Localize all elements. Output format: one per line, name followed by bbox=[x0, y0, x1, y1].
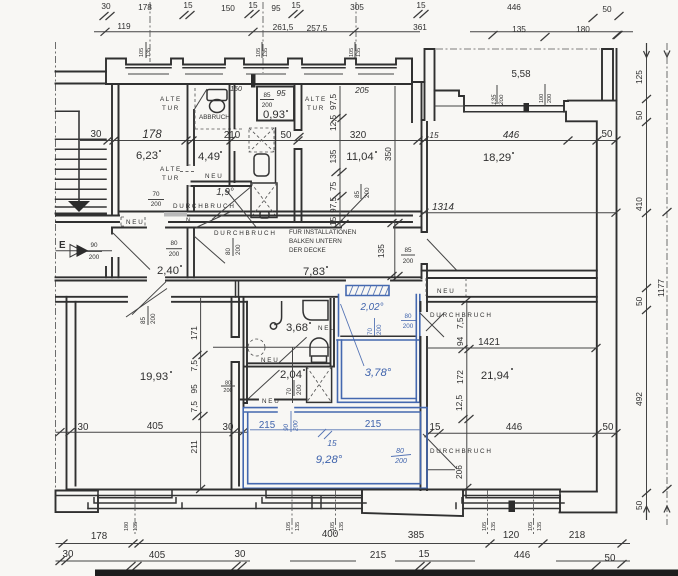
top wall window sill lines bbox=[128, 73, 394, 75]
svg-text:50: 50 bbox=[634, 296, 644, 306]
svg-text:492: 492 bbox=[634, 392, 644, 406]
svg-text:E: E bbox=[59, 240, 66, 251]
svg-text:N E U: N E U bbox=[261, 357, 278, 364]
wall A between stair hall and room 6,23 bbox=[112, 84, 119, 216]
svg-text:105: 105 bbox=[349, 48, 355, 57]
svg-text:2,40: 2,40 bbox=[157, 265, 179, 277]
svg-text:350: 350 bbox=[383, 147, 393, 161]
shaft S1 dashed bbox=[249, 128, 274, 152]
svg-text:305: 305 bbox=[350, 2, 364, 12]
room 2,40 walls bbox=[106, 228, 194, 278]
rotated 80/200 labels (7,83 door) bbox=[225, 238, 242, 256]
window axis small labels 105/135 right bbox=[349, 42, 362, 58]
vertical dim chain x=340 (97,5 12,5 135 75 97,5 15) bbox=[339, 86, 341, 226]
labels in 0,93: 85/200 fraction and 95 bbox=[260, 92, 274, 109]
right dim chain 2 (overall 1177) bbox=[666, 43, 668, 525]
breakthrough X below 4,49 bbox=[196, 212, 230, 228]
wall between 2,02 and 3,78 bbox=[341, 335, 416, 337]
NEU opening dashed in 18,29 bottom wall bbox=[426, 278, 466, 296]
svg-text:85: 85 bbox=[354, 190, 361, 198]
window bay 3 bbox=[456, 490, 564, 509]
door swing 3,68 bbox=[278, 337, 306, 363]
top dimension row A: 15 bbox=[180, 0, 195, 19]
svg-text:9,28°: 9,28° bbox=[316, 454, 343, 466]
stair hall top wall bbox=[56, 72, 107, 84]
corridor band upper wall lines bbox=[56, 216, 412, 223]
svg-text:15: 15 bbox=[429, 130, 439, 140]
svg-text:261,5: 261,5 bbox=[273, 22, 294, 32]
rotated 70/200 blue bbox=[367, 318, 383, 336]
svg-text:15: 15 bbox=[291, 0, 301, 10]
svg-text:D U R C H B R U C H: D U R C H B R U C H bbox=[430, 448, 491, 455]
svg-text:385: 385 bbox=[408, 530, 425, 541]
notch box inside shaft bbox=[260, 212, 269, 219]
svg-text:257,5: 257,5 bbox=[307, 23, 328, 33]
svg-text:135: 135 bbox=[328, 149, 338, 163]
bottom wall window line bbox=[56, 495, 560, 497]
door swing below 2,40 bbox=[132, 282, 166, 315]
shaft with X next to 2,04 bbox=[307, 367, 332, 403]
corridor strip verticals bbox=[236, 281, 239, 298]
svg-text:171: 171 bbox=[189, 326, 199, 340]
rotated 70/200 labels in 2,04 bbox=[286, 380, 303, 396]
svg-text:18,29: 18,29 bbox=[483, 152, 511, 164]
svg-text:200: 200 bbox=[235, 244, 242, 255]
svg-text:410: 410 bbox=[634, 197, 644, 211]
wall between room 11,04 and courtyard jamb bbox=[412, 59, 425, 85]
bottom exterior wall inner face bbox=[67, 489, 561, 491]
row B tick marks bbox=[101, 28, 110, 36]
85/200 fraction on duct bbox=[401, 247, 415, 265]
room 19,93 left wall bbox=[67, 297, 76, 490]
svg-text:135: 135 bbox=[491, 522, 497, 531]
svg-text:120: 120 bbox=[503, 530, 520, 541]
svg-text:135: 135 bbox=[537, 522, 543, 531]
bottom dim row C line bbox=[56, 543, 631, 545]
door swing 7,83 corridor bbox=[194, 236, 225, 263]
svg-text:N E U: N E U bbox=[205, 173, 222, 180]
svg-text:210: 210 bbox=[224, 130, 241, 141]
svg-text:50: 50 bbox=[605, 553, 616, 564]
courtyard bottom wall left stub bbox=[435, 91, 465, 112]
svg-text:15: 15 bbox=[248, 0, 258, 10]
fraction 85/200 rotated (11,04 door) bbox=[354, 184, 371, 199]
svg-text:2oo: 2oo bbox=[498, 94, 505, 106]
svg-text:320: 320 bbox=[350, 130, 367, 141]
svg-text:215: 215 bbox=[365, 419, 382, 430]
svg-text:100: 100 bbox=[539, 94, 545, 103]
blue room 3,78 walls bbox=[338, 295, 420, 403]
label 135 rotated corridor duct bbox=[376, 244, 386, 258]
svg-text:7,5: 7,5 bbox=[189, 360, 199, 372]
svg-text:4,49: 4,49 bbox=[198, 151, 220, 163]
room 4,49 bottom wall bbox=[192, 182, 252, 187]
NEU opening (gray shade) bbox=[164, 212, 187, 217]
svg-text:125: 125 bbox=[634, 70, 644, 84]
vertical dim 350 bbox=[394, 86, 396, 215]
svg-text:105: 105 bbox=[256, 48, 262, 57]
NEU label corridor left bbox=[121, 217, 145, 226]
toilet in 3,68 bbox=[310, 338, 328, 356]
door swing 2,04 bbox=[248, 370, 280, 399]
tick on 21,94 top wall bbox=[462, 297, 471, 305]
svg-text:90: 90 bbox=[283, 423, 290, 431]
bathtub bbox=[303, 301, 328, 321]
door swing wall B top (into 4,49) bbox=[194, 89, 207, 110]
svg-text:15: 15 bbox=[416, 0, 426, 10]
svg-text:5,58: 5,58 bbox=[511, 69, 531, 80]
svg-text:DER DECKE: DER DECKE bbox=[289, 247, 326, 254]
svg-text:200: 200 bbox=[223, 388, 232, 394]
svg-text:90: 90 bbox=[90, 242, 98, 249]
top dimension row A: 15 bbox=[245, 0, 260, 18]
top dimension row A: 30 bbox=[100, 1, 115, 20]
top exterior wall outer profile with window pillars bbox=[106, 59, 412, 85]
sink line and bowl bbox=[275, 302, 282, 325]
chain1 arrowheads bbox=[644, 43, 650, 520]
fraction 80/200 (19,93 right door) bbox=[221, 381, 235, 395]
dashed circle (future fixture) bbox=[248, 339, 265, 356]
svg-text:200: 200 bbox=[89, 254, 100, 261]
staircase flight divider bbox=[78, 111, 80, 207]
svg-text:150: 150 bbox=[221, 3, 235, 13]
top-right pier block bbox=[602, 49, 613, 101]
svg-text:135: 135 bbox=[133, 522, 139, 531]
svg-text:85: 85 bbox=[404, 247, 412, 254]
dashed window axes top bbox=[150, 2, 356, 73]
courtyard bottom wall right stub / corner of 18,29 bbox=[564, 101, 617, 492]
svg-text:30: 30 bbox=[101, 1, 111, 11]
svg-text:80: 80 bbox=[404, 313, 412, 320]
bottom dim row D line bbox=[56, 560, 631, 562]
svg-text:94: 94 bbox=[455, 336, 465, 346]
svg-text:7,83: 7,83 bbox=[303, 266, 325, 278]
svg-text:N E U: N E U bbox=[126, 219, 143, 226]
breakthrough diagonal and lines bbox=[423, 434, 457, 470]
thick wall chunk below 9,28 bbox=[362, 490, 463, 517]
sink bbox=[254, 154, 269, 176]
top dimension row A: 15 bbox=[414, 0, 429, 18]
svg-text:135: 135 bbox=[295, 522, 301, 531]
svg-text:105: 105 bbox=[482, 522, 488, 531]
svg-text:11,04: 11,04 bbox=[346, 151, 373, 163]
staircase landing line bbox=[56, 110, 80, 112]
window bay 2 (double) bbox=[256, 490, 366, 509]
svg-text:A L T E: A L T E bbox=[305, 96, 325, 103]
svg-text:15: 15 bbox=[419, 549, 430, 560]
svg-text:400: 400 bbox=[322, 529, 339, 540]
dim line 1421 bbox=[427, 347, 597, 349]
svg-text:D U R C H B R U C H: D U R C H B R U C H bbox=[214, 230, 275, 237]
rotated labels 105/135 bay2 bbox=[286, 522, 345, 531]
row D: 50 bbox=[592, 553, 627, 570]
dashed window axes bottom bbox=[135, 490, 534, 534]
room 18,29 bottom wall bbox=[422, 271, 597, 278]
rotated 85/200 (19,93 door) bbox=[140, 306, 157, 325]
shaft S2 with X bbox=[251, 183, 277, 218]
rotated labels 105/135 bay3 bbox=[482, 522, 543, 531]
dim line for corridor duct bbox=[394, 220, 396, 280]
svg-text:172: 172 bbox=[455, 370, 465, 384]
rotated window labels 180/135 bay1 bbox=[124, 522, 139, 531]
fraction 80/200 blue (2,02) bbox=[401, 313, 416, 330]
door swing room 2,40 left bbox=[113, 233, 150, 270]
staircase treads bbox=[56, 139, 107, 207]
fraction 90/200 entrance bbox=[86, 242, 102, 261]
window axis small labels 105/135 left bbox=[139, 42, 152, 58]
top wall inner face bbox=[106, 83, 412, 85]
19,93 entry door swing bbox=[126, 289, 167, 318]
bay 3 black mullion bbox=[509, 501, 516, 513]
blue door swing 2,02 bbox=[341, 304, 365, 366]
svg-text:1,9°: 1,9° bbox=[216, 187, 234, 198]
svg-text:2,02°: 2,02° bbox=[360, 302, 384, 313]
svg-text:97,5: 97,5 bbox=[328, 93, 338, 110]
svg-text:BALKEN UNTERN: BALKEN UNTERN bbox=[289, 238, 342, 245]
svg-text:200: 200 bbox=[296, 384, 303, 395]
svg-text:50: 50 bbox=[602, 129, 613, 140]
door swing into 18,29 bbox=[427, 239, 457, 271]
chimney black bar bbox=[251, 75, 256, 88]
svg-text:3,68: 3,68 bbox=[286, 322, 308, 334]
svg-text:1314: 1314 bbox=[432, 202, 454, 213]
svg-text:200: 200 bbox=[403, 258, 414, 265]
old door dashes in wall B bbox=[180, 165, 196, 186]
svg-text:95: 95 bbox=[276, 88, 286, 98]
breakthrough X in wall (2,02 to 21,94) bbox=[420, 313, 444, 337]
toilet in 4,49 (ABBRUCH) bbox=[207, 90, 227, 113]
svg-text:19,93: 19,93 bbox=[140, 371, 168, 383]
blue room 2,02 hatched top wall bbox=[346, 286, 389, 296]
svg-text:15: 15 bbox=[327, 438, 337, 448]
svg-text:135: 135 bbox=[146, 48, 152, 57]
right dim chain 1 line bbox=[646, 49, 648, 512]
svg-text:T U R: T U R bbox=[162, 105, 179, 112]
svg-text:N: N bbox=[186, 217, 191, 224]
top-right 50 ticks on axis bbox=[614, 31, 623, 39]
dim line 1314 bbox=[422, 212, 617, 214]
svg-text:105: 105 bbox=[139, 48, 145, 57]
svg-text:361: 361 bbox=[413, 22, 427, 32]
bottom-left corner block bbox=[56, 491, 99, 513]
svg-text:135: 135 bbox=[339, 522, 345, 531]
svg-text:0,93: 0,93 bbox=[263, 109, 285, 121]
svg-text:1177: 1177 bbox=[656, 279, 666, 297]
svg-text:3,78°: 3,78° bbox=[365, 367, 392, 379]
room 6,23 walls bbox=[119, 84, 422, 212]
svg-text:206: 206 bbox=[454, 465, 464, 479]
svg-text:200: 200 bbox=[169, 251, 180, 258]
row D: 15 bbox=[416, 549, 431, 570]
bottom outer sill line bbox=[88, 508, 560, 510]
svg-text:70: 70 bbox=[367, 327, 374, 335]
svg-text:D U R C H B R U C H: D U R C H B R U C H bbox=[173, 203, 234, 210]
blue dim line inside 9,28 bbox=[250, 429, 420, 431]
blue room 2,02 left wall bbox=[338, 295, 340, 337]
2,04 bottom wall bbox=[240, 400, 307, 404]
svg-text:95: 95 bbox=[271, 3, 281, 13]
nook 1,9 with breakthrough diagonals bbox=[212, 188, 256, 228]
svg-text:30: 30 bbox=[223, 422, 234, 433]
room 0,93 box bbox=[257, 87, 294, 121]
svg-text:30: 30 bbox=[78, 422, 89, 433]
svg-text:405: 405 bbox=[149, 550, 166, 561]
svg-text:30: 30 bbox=[63, 549, 74, 560]
lower section top wall (19,93 / bath) bbox=[56, 297, 338, 302]
courtyard french window lines bbox=[464, 106, 564, 112]
chain1 labels bbox=[634, 70, 644, 510]
courtyard window mullion bbox=[524, 103, 530, 113]
svg-text:N E U: N E U bbox=[437, 288, 454, 295]
svg-text:200: 200 bbox=[151, 201, 162, 208]
room 19,93 right wall bbox=[232, 297, 240, 490]
svg-text:178: 178 bbox=[91, 531, 108, 542]
svg-text:180: 180 bbox=[576, 24, 590, 34]
room 21,94 top wall bbox=[427, 297, 597, 302]
black wall between 3,78/9,28 and 21,94 bbox=[421, 302, 428, 490]
door leader line through corridor bbox=[88, 250, 112, 252]
svg-text:446: 446 bbox=[507, 2, 521, 12]
svg-text:ABBRUCH: ABBRUCH bbox=[199, 114, 230, 121]
dim line y=432 (30 405 30) bbox=[56, 431, 248, 433]
svg-text:80: 80 bbox=[170, 240, 178, 247]
svg-text:218: 218 bbox=[569, 530, 586, 541]
svg-text:135: 135 bbox=[356, 48, 362, 57]
svg-text:200: 200 bbox=[394, 458, 407, 465]
svg-text:200: 200 bbox=[403, 323, 414, 330]
svg-text:15: 15 bbox=[183, 0, 193, 10]
svg-text:N E U: N E U bbox=[318, 325, 335, 332]
fraction 70/200 bbox=[148, 191, 164, 208]
bottom black title bar bbox=[95, 570, 678, 576]
svg-text:200: 200 bbox=[150, 313, 157, 324]
svg-text:50: 50 bbox=[634, 110, 644, 120]
svg-text:205: 205 bbox=[354, 85, 369, 95]
svg-text:T U R: T U R bbox=[162, 175, 179, 182]
svg-text:405: 405 bbox=[147, 421, 164, 432]
svg-text:150: 150 bbox=[230, 86, 242, 93]
svg-text:50: 50 bbox=[634, 500, 644, 510]
svg-text:80: 80 bbox=[225, 247, 232, 255]
dim line inside courtyard bbox=[435, 105, 465, 107]
svg-text:70: 70 bbox=[152, 191, 160, 198]
svg-text:T U R: T U R bbox=[307, 105, 324, 112]
svg-text:178: 178 bbox=[142, 129, 162, 141]
svg-text:80: 80 bbox=[396, 448, 404, 455]
svg-text:135: 135 bbox=[376, 244, 386, 258]
wall E (11,04 / 18,29) bbox=[412, 82, 427, 302]
tick after 50 bbox=[295, 133, 304, 141]
svg-text:21,94: 21,94 bbox=[481, 370, 509, 382]
svg-text:FUR INSTALLATIONEN: FUR INSTALLATIONEN bbox=[289, 229, 357, 236]
svg-text:119: 119 bbox=[117, 21, 131, 31]
extension line x=292.5 bbox=[292, 347, 294, 403]
svg-text:1421: 1421 bbox=[478, 337, 500, 348]
svg-text:105: 105 bbox=[286, 522, 292, 531]
svg-text:85: 85 bbox=[140, 316, 147, 324]
svg-text:95: 95 bbox=[189, 384, 199, 394]
svg-text:200: 200 bbox=[547, 94, 553, 103]
dim line y=433 (15 446 50) bbox=[427, 432, 617, 434]
top dimension row A: 50 bbox=[589, 4, 624, 22]
fraction 80/200 in 2,40 bbox=[166, 240, 182, 258]
svg-text:200: 200 bbox=[364, 187, 371, 198]
svg-text:7,5: 7,5 bbox=[189, 401, 199, 413]
stair direction arrow (down) bbox=[68, 201, 90, 212]
svg-text:200: 200 bbox=[262, 102, 273, 109]
window axis small labels 105/135 mid bbox=[256, 42, 269, 58]
top dimension row A: 15 bbox=[289, 0, 304, 18]
svg-text:180: 180 bbox=[124, 522, 130, 531]
svg-text:50: 50 bbox=[281, 130, 292, 141]
courtyard left wall bbox=[422, 49, 435, 120]
building outer right wall bbox=[616, 49, 618, 512]
vertical dim chain x=200.6 bbox=[200, 298, 202, 490]
svg-text:6,23: 6,23 bbox=[136, 150, 158, 162]
svg-text:215: 215 bbox=[370, 550, 387, 561]
vertical dim chain x=466.8 bbox=[466, 302, 468, 490]
svg-text:135: 135 bbox=[263, 48, 269, 57]
svg-text:50: 50 bbox=[602, 4, 612, 14]
bath room 3,68 walls bbox=[244, 297, 335, 407]
svg-text:200: 200 bbox=[376, 324, 383, 335]
door leader line y=347 bbox=[213, 346, 331, 348]
svg-text:446: 446 bbox=[506, 422, 523, 433]
wall D bbox=[295, 84, 302, 222]
svg-text:75: 75 bbox=[328, 181, 338, 191]
svg-text:135: 135 bbox=[512, 24, 526, 34]
svg-text:A L T E: A L T E bbox=[160, 96, 180, 103]
svg-text:A L T E: A L T E bbox=[160, 166, 180, 173]
top wall window second lines bbox=[126, 67, 396, 69]
staircase bottom edge bbox=[56, 213, 107, 215]
corridor bottom wall bbox=[56, 277, 422, 280]
courtyard axis line bbox=[436, 48, 600, 50]
svg-text:215: 215 bbox=[259, 420, 276, 431]
fraction 80/200 blue (9,28 right) bbox=[391, 448, 411, 465]
blue room 9,28 outer walls bbox=[243, 408, 427, 489]
svg-text:105: 105 bbox=[528, 522, 534, 531]
row D: 30 bbox=[232, 549, 247, 570]
label 100/200 rotated bbox=[539, 84, 553, 106]
top dimension row B line bbox=[94, 31, 633, 33]
svg-text:7,5: 7,5 bbox=[455, 317, 465, 329]
svg-text:446: 446 bbox=[503, 130, 520, 141]
svg-text:30: 30 bbox=[235, 549, 246, 560]
svg-text:70: 70 bbox=[286, 387, 293, 395]
svg-text:446: 446 bbox=[514, 550, 531, 561]
door swing room 11,04 bottom bbox=[339, 193, 368, 223]
main internal dimension chain line y=140 bbox=[80, 140, 616, 142]
svg-text:12,5: 12,5 bbox=[454, 394, 464, 411]
svg-text:30: 30 bbox=[91, 129, 102, 140]
svg-text:211: 211 bbox=[189, 440, 199, 454]
svg-text:2,04: 2,04 bbox=[280, 369, 302, 381]
window bay 1 bbox=[88, 490, 182, 509]
svg-text:15: 15 bbox=[430, 422, 441, 433]
bottom-right corner bbox=[560, 492, 617, 513]
svg-text:200: 200 bbox=[293, 420, 300, 432]
label 135/200 rotated (courtyard door) bbox=[491, 85, 505, 106]
svg-text:85: 85 bbox=[263, 92, 271, 99]
wall C bbox=[230, 84, 235, 186]
wall in 0,93 column bbox=[275, 128, 277, 182]
corridor top face line bbox=[112, 227, 422, 229]
left party wall axis (dash-dot) bbox=[55, 42, 57, 512]
svg-text:50: 50 bbox=[603, 422, 614, 433]
